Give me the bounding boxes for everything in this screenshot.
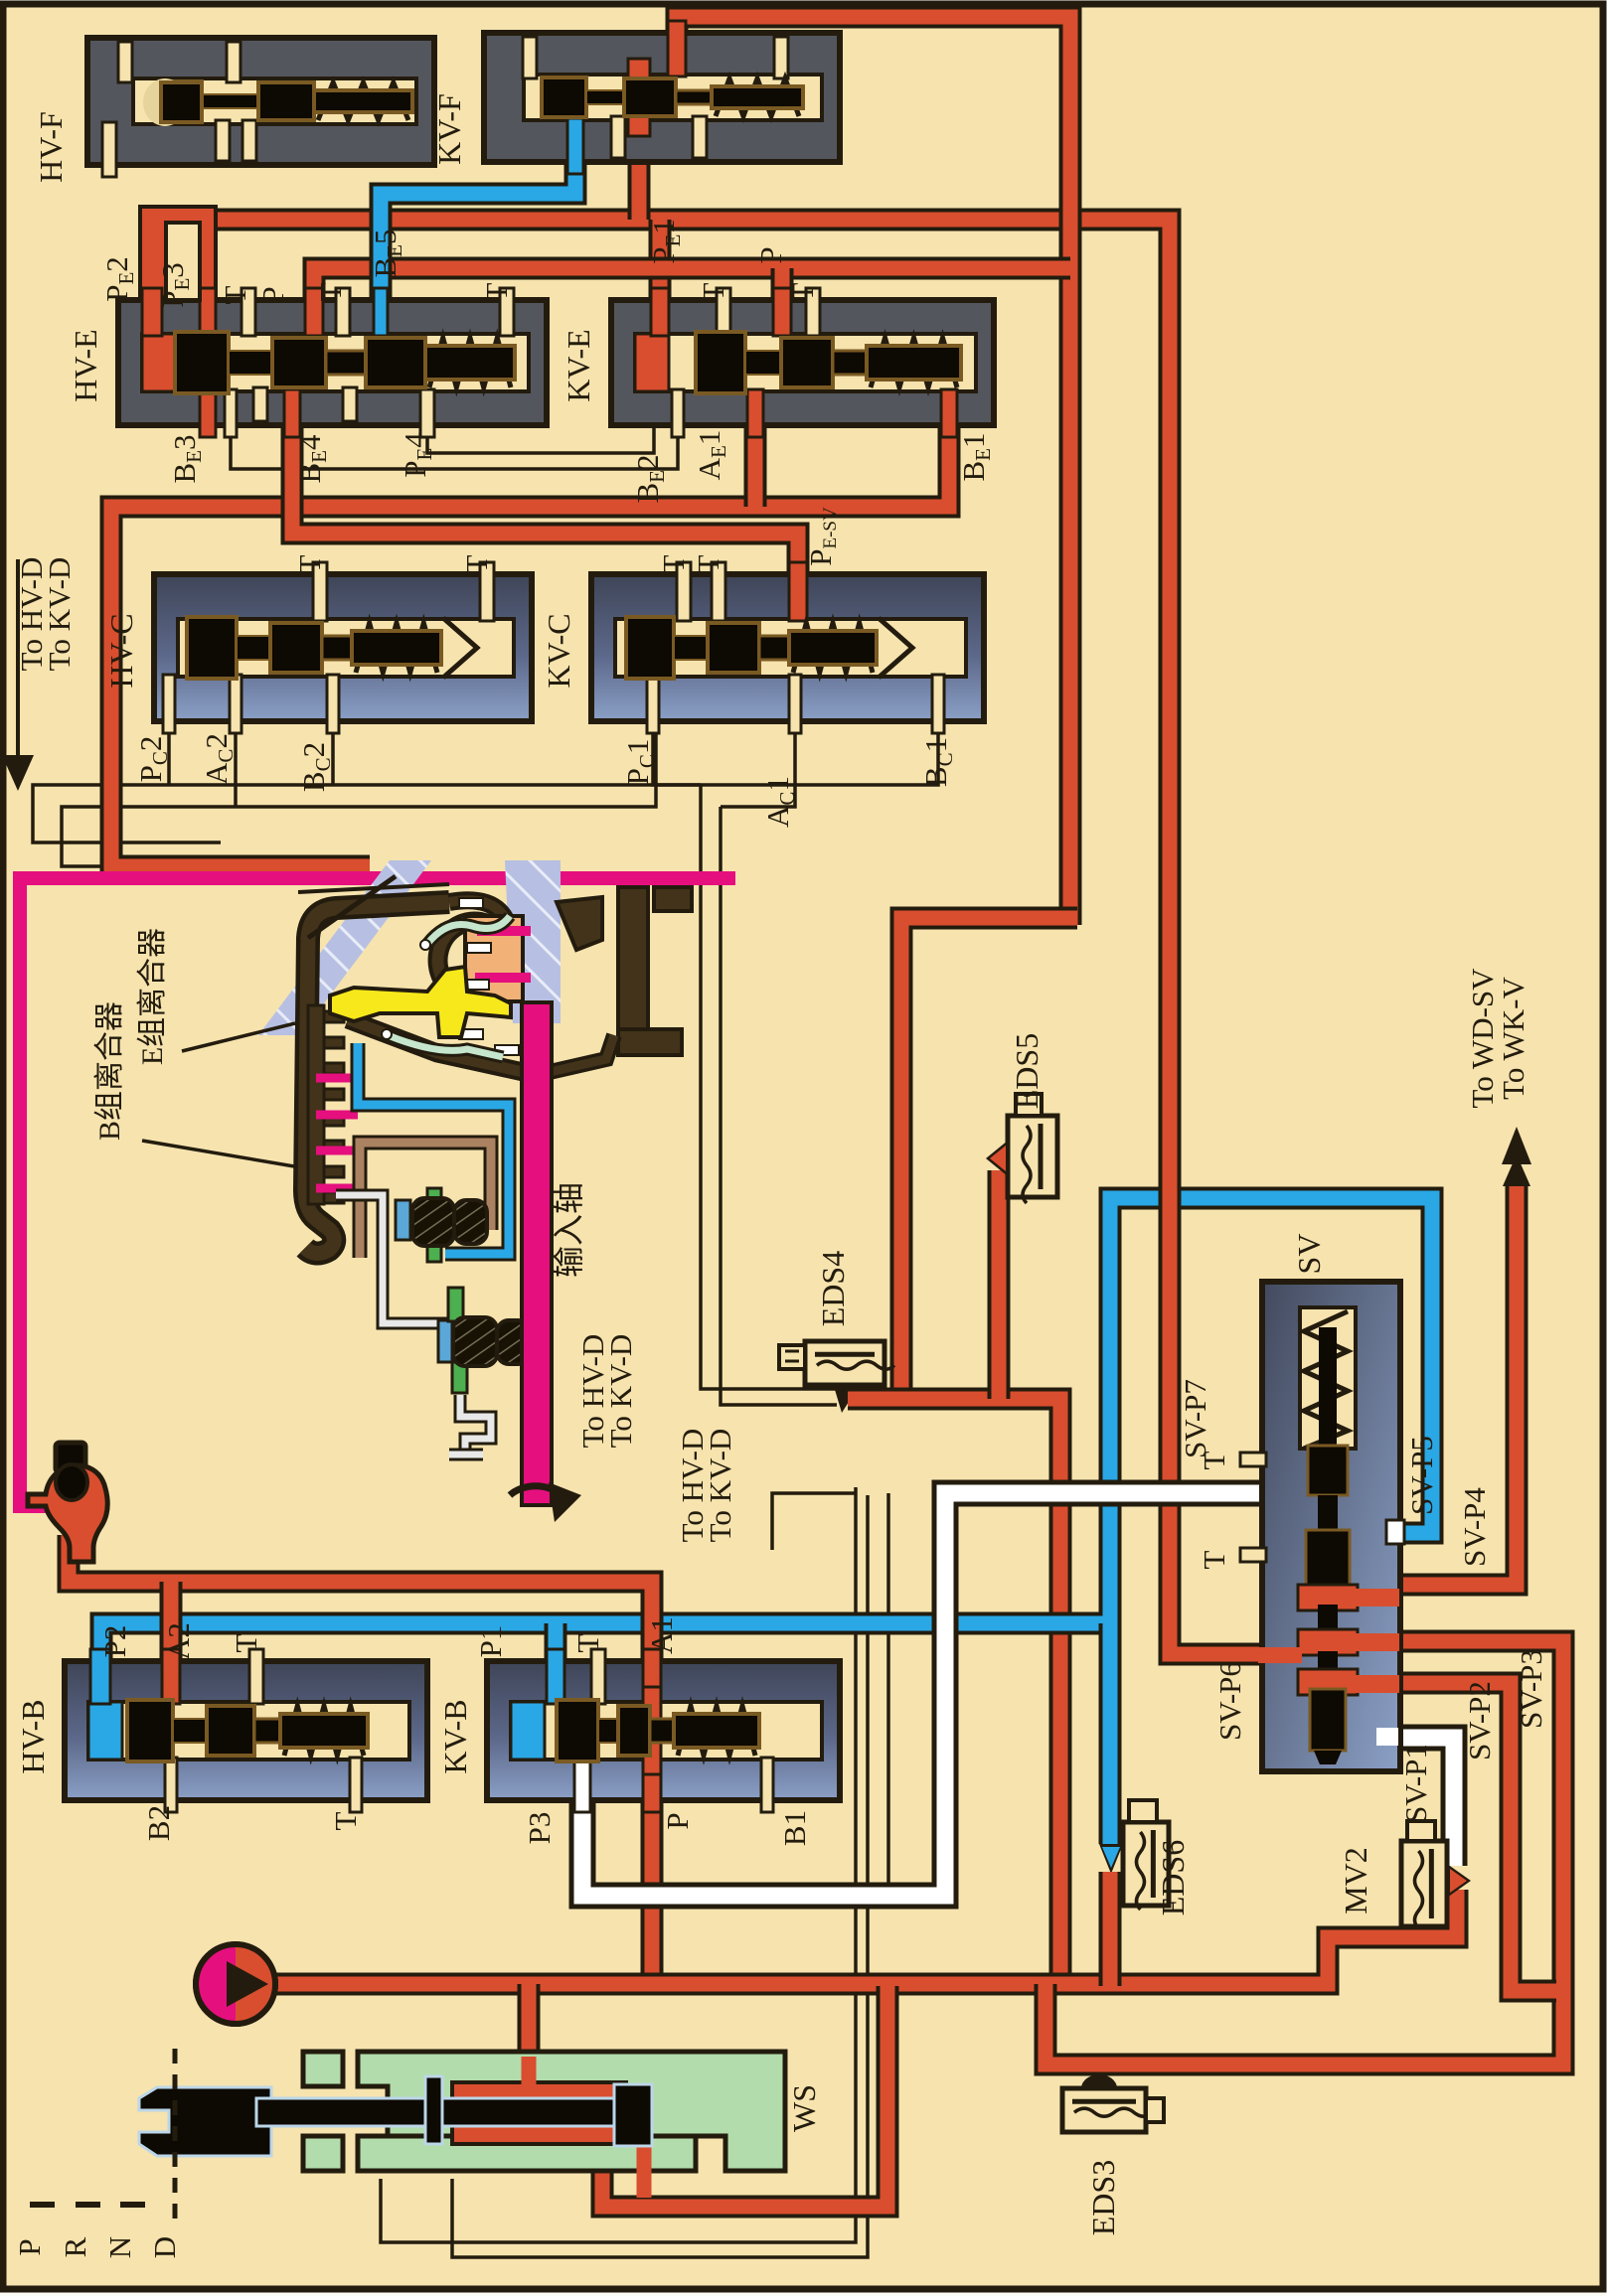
svg-text:T: T bbox=[479, 282, 514, 301]
solenoid EDS6 bbox=[1123, 1822, 1169, 1906]
thin line network below HV-C/KV-C with To HV-D arrow bbox=[33, 723, 938, 842]
svg-text:B2: B2 bbox=[141, 1805, 176, 1841]
leader line E clutch bbox=[182, 1023, 295, 1051]
svg-text:WS: WS bbox=[786, 2084, 822, 2132]
valve HV-E bottom port at x=294 bbox=[284, 389, 300, 437]
arrow To HV-D / To KV-D (left) bbox=[16, 559, 20, 763]
blue pipe B_E5: KV-F to HV-E bbox=[381, 157, 575, 320]
svg-text:T: T bbox=[1197, 1451, 1231, 1469]
valve HV-C bottom port at x=237 bbox=[230, 675, 241, 733]
valve KV-E top port at x=664 bbox=[651, 288, 669, 336]
svg-text:SV: SV bbox=[1291, 1234, 1327, 1275]
svg-text:KV-E: KV-E bbox=[561, 329, 596, 401]
solenoid EDS3 bbox=[1062, 2088, 1146, 2132]
white pipe: SV bottom to MV2 bbox=[1302, 1738, 1454, 1866]
valve KV-C bottom port at x=657 bbox=[647, 675, 659, 733]
red pipe KV-F bottom stub bbox=[628, 139, 651, 220]
svg-text:T: T bbox=[1197, 1550, 1231, 1569]
svg-text:T: T bbox=[696, 282, 730, 301]
valve KV-E bottom port at x=955 bbox=[941, 389, 957, 437]
valve KV-F body bbox=[484, 33, 840, 162]
grey hook line lower bbox=[460, 1395, 491, 1454]
svg-text:KV-C: KV-C bbox=[541, 613, 576, 688]
valve KV-E top port at x=728 bbox=[717, 288, 730, 336]
clutch drum snail (E piston housing) bbox=[438, 922, 507, 979]
red pipe line1: B_E3/A_E1/B_E1 header + clutch feed bbox=[111, 427, 949, 866]
svg-text:KV-B: KV-B bbox=[437, 1699, 473, 1773]
valve KV-C bottom port at x=944 bbox=[932, 675, 944, 733]
valve HV-C top port at x=322 bbox=[313, 562, 327, 621]
red pipe horizontal B: P ports header bbox=[314, 268, 1070, 300]
svg-text:P1: P1 bbox=[473, 1625, 508, 1658]
valve HV-B bottom port at x=358 bbox=[350, 1758, 362, 1812]
svg-text:HV-E: HV-E bbox=[68, 329, 103, 401]
valve KV-B bottom port at x=586 bbox=[574, 1758, 590, 1812]
valve HV-E bottom port at x=209 bbox=[200, 389, 216, 437]
svg-text:EDS5: EDS5 bbox=[1009, 1033, 1045, 1109]
svg-text:P: P bbox=[12, 2238, 47, 2255]
blue clutch line bbox=[358, 1043, 509, 1254]
red pipe lower loop: SV-P3/SV-P2/EDS3 bbox=[1045, 1641, 1563, 2065]
blue pipe EDS6 branch bbox=[1099, 1623, 1122, 1844]
valve HV-E top port at x=209 bbox=[200, 288, 216, 336]
valve HV-E bottom port at x=232 bbox=[225, 389, 237, 437]
white clutch line bbox=[336, 1195, 449, 1351]
valve KV-E bottom port at x=760 bbox=[747, 389, 763, 437]
white pipe: KV-B P3 to SV T bbox=[582, 1493, 1267, 1896]
svg-text:P3: P3 bbox=[522, 1812, 557, 1845]
red pipe vertical overlay at crossing bbox=[1059, 189, 1082, 252]
red pipe pump main line bbox=[266, 1890, 1457, 1984]
svg-text:SV-P6: SV-P6 bbox=[1212, 1661, 1247, 1741]
red pipe: top feed from KV-F to right verticals down to EDS4/pump bbox=[677, 17, 1070, 925]
valve HV-E top port at x=153 bbox=[142, 288, 162, 336]
valve HV-E spool bbox=[175, 332, 229, 393]
svg-text:KV-F: KV-F bbox=[431, 93, 467, 165]
valve KV-E spool bbox=[696, 332, 745, 393]
WS selector body bbox=[303, 2052, 785, 2171]
svg-text:To KV-D: To KV-D bbox=[603, 1334, 638, 1449]
valve HV-E top port at x=345 bbox=[336, 288, 350, 336]
svg-text:SV-P7: SV-P7 bbox=[1178, 1379, 1212, 1458]
valve KV-C spring bbox=[793, 623, 873, 673]
svg-text:P: P bbox=[255, 286, 290, 303]
svg-text:P: P bbox=[753, 246, 788, 263]
svg-text:A2: A2 bbox=[161, 1622, 196, 1660]
svg-text:EDS4: EDS4 bbox=[815, 1251, 851, 1326]
red pipe line2: B_E4 to KV-C P_E-SV bbox=[292, 427, 798, 581]
valve KV-C top port at x=723 bbox=[712, 562, 725, 621]
valve HV-B spring bbox=[284, 1706, 364, 1756]
valve KV-C top port at x=688 bbox=[677, 562, 691, 621]
svg-text:T: T bbox=[785, 282, 820, 301]
red pipe EDS5 stub bbox=[988, 1170, 1011, 1399]
valve KV-B top port at x=656 bbox=[643, 1649, 661, 1704]
SV red chambers bbox=[1298, 1585, 1358, 1610]
valve HV-E top port at x=316 bbox=[305, 288, 323, 336]
valve HV-E body bbox=[118, 300, 547, 425]
valve KV-F spool bbox=[542, 77, 586, 117]
red pipe P_E2/P_E3 fork block bbox=[140, 207, 216, 302]
svg-text:EDS6: EDS6 bbox=[1155, 1840, 1191, 1915]
valve KV-C top port at x=803 bbox=[789, 562, 807, 621]
gear pair 1 bbox=[396, 1200, 410, 1240]
svg-text:P2: P2 bbox=[97, 1625, 132, 1658]
valve KV-C spool bbox=[626, 617, 674, 679]
valve HV-E spring bbox=[429, 338, 511, 387]
blue pipe main low-pressure loop bbox=[101, 1198, 1432, 1669]
valve KV-B top port at x=559 bbox=[547, 1649, 564, 1704]
valve KV-F bottom port at x=579 bbox=[567, 118, 583, 174]
clutch hatched band right bbox=[505, 860, 561, 1023]
red pipe vertical overlay over blue loop bbox=[1159, 1164, 1182, 1234]
valve KV-E top port at x=818 bbox=[806, 288, 820, 336]
svg-text:HV-F: HV-F bbox=[33, 111, 69, 183]
valve KV-B bottom port at x=656 bbox=[643, 1758, 661, 1812]
clutch hatched支架 band left bbox=[258, 860, 431, 1035]
valve KV-B bottom port at x=772 bbox=[761, 1758, 773, 1812]
solenoid EDS4 bbox=[805, 1341, 884, 1385]
yellow release fork bbox=[330, 967, 511, 1037]
clutch drum bbox=[305, 902, 449, 1254]
svg-text:输入轴: 输入轴 bbox=[551, 1182, 586, 1278]
svg-text:SV-P2: SV-P2 bbox=[1462, 1681, 1497, 1760]
valve HV-B top port at x=101 bbox=[90, 1649, 110, 1704]
valve KV-B top port at x=602 bbox=[591, 1649, 605, 1704]
svg-text:To KV-D: To KV-D bbox=[703, 1429, 737, 1543]
valve HV-F spring bbox=[318, 82, 408, 120]
thin lines selector to HV-D/KV-D bbox=[381, 1487, 856, 2242]
SV spool bbox=[1308, 1446, 1348, 1495]
orange piston block bbox=[465, 916, 523, 1001]
valve HV-E top port at x=383 bbox=[374, 288, 388, 336]
svg-text:B组离合器: B组离合器 bbox=[93, 1001, 126, 1141]
valve KV-E top port at x=787 bbox=[773, 288, 791, 336]
svg-text:HV-B: HV-B bbox=[15, 1699, 51, 1773]
green snake lower bbox=[388, 1035, 503, 1057]
arrow To WD-SV bbox=[1515, 1157, 1519, 1186]
svg-text:SV-P4: SV-P4 bbox=[1457, 1487, 1492, 1567]
WS red chamber bbox=[452, 2082, 626, 2144]
valve KV-B spool bbox=[557, 1700, 598, 1761]
SV spring window bbox=[1300, 1307, 1356, 1449]
oil strainer cap bbox=[56, 1443, 85, 1472]
valve HV-C spring bbox=[356, 623, 437, 673]
svg-text:D: D bbox=[147, 2236, 182, 2258]
thin line network below HV-E/KV-E bbox=[231, 425, 678, 469]
brown clutch line bbox=[360, 1143, 491, 1258]
svg-text:T: T bbox=[459, 554, 494, 573]
pump circle bbox=[196, 1944, 275, 2024]
thin lines to EDS4 bbox=[653, 723, 701, 785]
valve HV-F spool bbox=[161, 81, 202, 121]
red pipe EDS6 to pump main bbox=[1099, 1872, 1122, 1986]
svg-text:SV-P1: SV-P1 bbox=[1398, 1744, 1433, 1823]
svg-text:EDS3: EDS3 bbox=[1085, 2160, 1121, 2235]
svg-text:T: T bbox=[292, 554, 327, 573]
red pipe KV-B down to pump main bbox=[641, 1796, 664, 1986]
red pipe horizontal A: P_E2/P_E1 header down to SV-P6 bbox=[152, 220, 1282, 1654]
valve HV-C spool bbox=[187, 617, 237, 679]
clutch drum upper right arm bbox=[557, 897, 602, 950]
valve HV-C body bbox=[154, 574, 532, 721]
valve KV-C body bbox=[591, 574, 984, 721]
valve HV-E top port at x=250 bbox=[241, 288, 255, 336]
svg-text:N: N bbox=[102, 2236, 137, 2258]
svg-text:SV-P3: SV-P3 bbox=[1514, 1649, 1548, 1729]
valve KV-E spring bbox=[871, 338, 957, 387]
valve KV-E body bbox=[611, 300, 994, 425]
valve KV-B spring bbox=[678, 1706, 755, 1756]
svg-text:T: T bbox=[570, 1633, 605, 1652]
svg-text:R: R bbox=[58, 2236, 92, 2257]
svg-text:E组离合器: E组离合器 bbox=[136, 928, 169, 1065]
svg-text:T: T bbox=[328, 1811, 363, 1830]
svg-text:T: T bbox=[313, 282, 348, 301]
WS spool bbox=[139, 2076, 652, 2156]
red pipe SV-P4 up to WD-SV arrow bbox=[1393, 1184, 1517, 1585]
rotation arrow bbox=[510, 1486, 562, 1495]
valve KV-F spring bbox=[716, 78, 799, 116]
white clip tips bbox=[459, 898, 483, 908]
SV right port stubs bbox=[1386, 1520, 1404, 1544]
valve HV-C bottom port at x=335 bbox=[327, 675, 339, 733]
valve HV-F body bbox=[87, 38, 434, 165]
valve KV-B body bbox=[487, 1661, 840, 1800]
red pipe selector outlet bbox=[602, 1986, 887, 2207]
svg-text:P: P bbox=[660, 1812, 695, 1829]
svg-text:To KV-D: To KV-D bbox=[42, 557, 77, 672]
magenta comb feeds bbox=[316, 1074, 358, 1083]
valve SV body bbox=[1262, 1282, 1400, 1771]
SV left T stubs bbox=[1240, 1453, 1266, 1466]
svg-text:B1: B1 bbox=[777, 1810, 812, 1846]
green snake upper bbox=[427, 916, 510, 944]
svg-text:T: T bbox=[656, 554, 691, 573]
red pipe P_E1 branch bbox=[649, 220, 672, 308]
magenta clutch feed corner bbox=[524, 878, 538, 982]
valve HV-E top port at x=510 bbox=[500, 288, 514, 336]
valve HV-B bottom port at x=172 bbox=[165, 1758, 177, 1812]
svg-text:To WD-SV: To WD-SV bbox=[1465, 968, 1500, 1109]
red pipe KV-E P branch bbox=[771, 268, 794, 308]
solenoid EDS5 bbox=[1008, 1116, 1057, 1197]
magenta piston feeds bbox=[477, 926, 531, 936]
gear pair 2 bbox=[438, 1320, 452, 1362]
clutch drum lower arm bbox=[348, 1019, 537, 1075]
svg-text:A1: A1 bbox=[644, 1616, 679, 1654]
valve HV-C top port at x=490 bbox=[480, 562, 494, 621]
svg-text:SV-P5: SV-P5 bbox=[1404, 1436, 1439, 1515]
oil strainer body bbox=[28, 1465, 107, 1562]
svg-text:T: T bbox=[691, 554, 725, 573]
valve HV-B body bbox=[65, 1661, 427, 1800]
valve HV-B top port at x=172 bbox=[162, 1649, 180, 1704]
svg-text:To WK-V: To WK-V bbox=[1496, 976, 1530, 1099]
leader line B clutch bbox=[142, 1141, 300, 1167]
solenoid MV2 bbox=[1401, 1841, 1447, 1926]
svg-text:T: T bbox=[218, 285, 252, 304]
valve KV-C bottom port at x=800 bbox=[789, 675, 801, 733]
clutch drum comb bar bbox=[308, 1005, 324, 1204]
magenta line: left frame to pump strainer bbox=[20, 878, 735, 1506]
valve HV-B top port at x=258 bbox=[249, 1649, 263, 1704]
valve HV-E bottom port at x=430 bbox=[420, 389, 434, 437]
svg-text:T: T bbox=[229, 1633, 263, 1652]
P_E3 window bbox=[166, 223, 200, 300]
valve HV-B spool bbox=[127, 1700, 173, 1761]
input shaft bbox=[522, 1002, 552, 1505]
valve KV-F top port at x=681 bbox=[668, 21, 686, 77]
valve KV-E bottom port at x=682 bbox=[672, 389, 684, 437]
red pipe pump strainer feed to HV-B/KV-B bbox=[69, 1535, 652, 1669]
valve HV-F bottom port at x=110 bbox=[102, 122, 116, 177]
svg-text:MV2: MV2 bbox=[1338, 1847, 1373, 1914]
valve HV-C bottom port at x=170 bbox=[163, 675, 175, 733]
svg-text:HV-C: HV-C bbox=[103, 613, 139, 688]
